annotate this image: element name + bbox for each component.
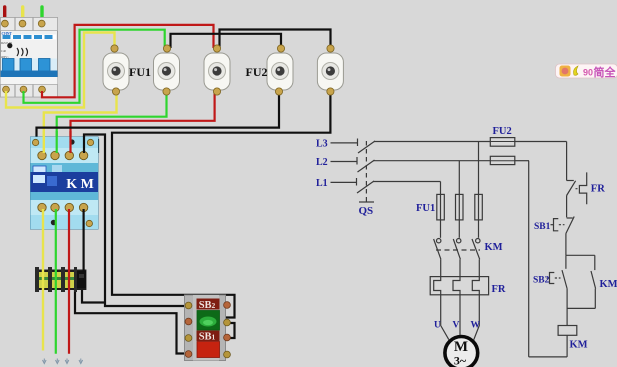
svg-text:CHNT: CHNT <box>2 32 13 36</box>
wire black terminal strip to pushbutton bottom-left <box>75 289 188 354</box>
control circuit right leg from FU2 <box>566 142 568 181</box>
wire supply L1 red <box>3 7 6 22</box>
wire L2 drop to FU1 fuse b <box>458 161 460 195</box>
line L1 <box>331 181 357 183</box>
wire FR to motor U <box>441 295 449 340</box>
wire yellow fuse1 bottom to contactor <box>44 92 117 155</box>
FR heater element 3 <box>472 277 479 295</box>
svg-text:L1: L1 <box>316 178 328 189</box>
return wire to L2 <box>529 356 567 358</box>
pushbutton SB2 NO <box>565 255 567 268</box>
contact KM main 2 <box>457 239 461 243</box>
wire green contactor to motor leads <box>55 209 57 354</box>
wire black contactor 4th pole down <box>82 209 84 272</box>
wire supply L3 green <box>40 7 43 22</box>
svg-text:DZ47-60: DZ47-60 <box>1 41 12 45</box>
fuse holder FU2-2 <box>317 45 343 95</box>
svg-text:90: 90 <box>583 68 593 78</box>
fuse FU2 element on L3 <box>490 138 515 147</box>
wire red fuse3 bottom to contactor <box>71 92 215 155</box>
circuit breaker QF <box>1 18 58 98</box>
wire black stub aux into contactor top <box>83 136 85 153</box>
svg-text:SB1: SB1 <box>534 222 551 232</box>
wire green fuse2 bottom to contactor <box>57 92 167 155</box>
wire black contactor aux to pushbutton left <box>84 135 187 307</box>
svg-text:SB2: SB2 <box>533 276 550 286</box>
wire black fuse5 bottom to pushbutton right <box>112 90 330 318</box>
svg-text:C40: C40 <box>1 49 7 53</box>
FR heater element 1 <box>434 277 441 295</box>
wire yellow contactor to motor leads <box>42 209 44 351</box>
coil KM <box>558 326 577 336</box>
svg-text:L3: L3 <box>316 139 328 150</box>
fuse FU2 element on L2 <box>490 156 515 164</box>
FR heater element 2 <box>453 277 460 295</box>
wire green stub into contactor top <box>56 131 58 153</box>
terminal strip XT <box>35 267 86 292</box>
contactor KM pictorial <box>31 137 99 229</box>
svg-text:FU2: FU2 <box>493 126 512 137</box>
svg-text:K M: K M <box>66 177 94 192</box>
motor lead arrows <box>43 359 83 364</box>
dashed linkage KM main <box>436 249 480 251</box>
fuse holder FU1-1 <box>103 45 129 95</box>
svg-text:W: W <box>471 321 481 331</box>
svg-text:SB1: SB1 <box>199 332 216 343</box>
wire black terminal strip junction <box>82 289 105 303</box>
wire red contactor to motor leads <box>68 209 70 354</box>
fuse FU1 b <box>456 194 464 220</box>
svg-text:V: V <box>453 321 460 331</box>
svg-text:FU1: FU1 <box>416 203 435 214</box>
svg-text:KM: KM <box>485 242 503 253</box>
watermark logo <box>556 64 617 79</box>
svg-text:KM: KM <box>570 340 588 351</box>
wire yellow stub into contactor top <box>43 131 45 153</box>
svg-text:KM: KM <box>600 279 617 290</box>
svg-text:FU1: FU1 <box>129 65 151 79</box>
fuse holder FU1-2 <box>154 45 180 95</box>
wire green breaker to FU1 fuse2 top <box>24 30 165 103</box>
wire red breaker to FU1 fuse3 top <box>42 25 214 97</box>
fuse FU1 c <box>475 194 483 220</box>
svg-text:FR: FR <box>591 184 605 195</box>
fuse holder FU2-1 <box>267 45 293 95</box>
FR NC contact <box>567 180 574 182</box>
svg-text:SB2: SB2 <box>199 300 216 311</box>
svg-text:FU2: FU2 <box>246 65 268 79</box>
wire black fuse3 top to fuse5 top <box>220 30 331 49</box>
switch QS dashed linkage <box>365 141 367 202</box>
schematic labels <box>316 126 617 367</box>
wire black pushbutton right bracket <box>226 323 235 338</box>
wire L1 drop to FU1 fuse a <box>440 182 442 195</box>
wire supply L2 yellow <box>21 7 24 22</box>
wire FR to motor V <box>459 295 461 337</box>
wire L3 drop to FU1 fuse c <box>478 142 480 195</box>
svg-text:QS: QS <box>359 205 374 217</box>
svg-text:FR: FR <box>492 284 506 295</box>
switch QS pole L1 <box>356 178 358 186</box>
node branch to KM aux <box>566 254 595 256</box>
line L2 <box>331 161 357 163</box>
fuse holder FU1-3 <box>204 45 230 95</box>
pushbutton SB1 NC <box>567 217 573 219</box>
motor M circle <box>445 337 478 367</box>
switch QS pole L3 <box>357 139 359 147</box>
line L3 <box>331 142 358 144</box>
svg-text:U: U <box>434 321 441 331</box>
switch QS pole L2 <box>356 157 358 165</box>
svg-text:简全: 简全 <box>594 65 617 79</box>
wire yellow breaker to FU1 fuse1 top <box>6 33 115 108</box>
wire black aux loop <box>89 140 98 154</box>
wire FR to motor W <box>474 295 480 340</box>
wire black fuse2 top to fuse4 top <box>171 34 282 48</box>
wire black fuse4 bottom to contactor coil A1 <box>37 92 280 143</box>
contact KM main 1 <box>437 239 441 243</box>
fuse FU1 a <box>437 194 445 220</box>
svg-text:L2: L2 <box>316 157 328 168</box>
thermal relay FR box <box>430 277 488 295</box>
pushbutton box SB <box>185 295 231 361</box>
contact KM main 3 <box>476 239 480 243</box>
wire red stub into contactor top <box>69 131 71 153</box>
contact KM aux NO <box>591 271 596 289</box>
svg-text:3~: 3~ <box>454 354 467 367</box>
FR release element <box>579 172 586 204</box>
